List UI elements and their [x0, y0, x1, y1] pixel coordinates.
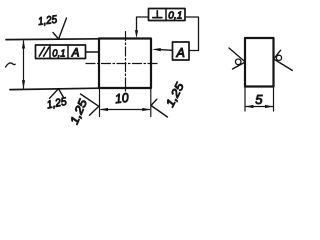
dimension l line: [23, 41, 25, 88]
dimension 5 line: [246, 106, 273, 108]
no-removal roughness symbol left face: [229, 48, 245, 69]
roughness mark right extension: [151, 99, 168, 117]
front view outline: [99, 39, 151, 89]
parallelism symbol //: [39, 47, 44, 56]
bottom edge extension line: [10, 88, 99, 89]
extension line left of dimension 10: [99, 88, 101, 117]
perpendicularity frame: [149, 9, 186, 21]
leader arrow down: [135, 30, 138, 38]
svg-text:0,1: 0,1: [52, 47, 65, 59]
connector frame to datum box: [185, 17, 199, 51]
dimension l arrow down: [22, 80, 25, 89]
vertical centerline: [125, 32, 127, 95]
dimension 10 left arrow: [100, 108, 109, 111]
datum box A: [173, 42, 190, 60]
roughness mark left extension: [81, 94, 99, 115]
svg-text:1,25: 1,25: [37, 14, 58, 28]
svg-text:10: 10: [114, 90, 130, 106]
leader from perpendicularity frame: [137, 17, 149, 31]
dimension 10 right arrow: [142, 108, 151, 111]
perpendicularity symbol: [156, 11, 158, 18]
extension line right of dimension 5: [273, 87, 275, 112]
parallelism frame: [36, 45, 86, 59]
dimension 5 left arrow: [245, 105, 254, 108]
horizontal centerline: [86, 63, 157, 65]
extension line right of dimension 10: [150, 88, 152, 117]
roughness mark bottom face: [50, 89, 64, 99]
top edge extension line: [6, 38, 99, 41]
frame connector to left face: [86, 51, 100, 53]
svg-text:0,1: 0,1: [168, 10, 182, 22]
svg-text:A: A: [176, 46, 185, 60]
side view outline: [245, 38, 274, 87]
roughness mark top: [53, 18, 67, 39]
dimension l arrow up: [22, 40, 25, 49]
svg-text:5: 5: [255, 92, 263, 107]
datum arrow: [152, 48, 161, 51]
no-removal roughness symbol right face: [274, 50, 293, 70]
dimension 10 line: [101, 109, 150, 111]
svg-text:A: A: [71, 48, 80, 60]
dimension 5 right arrow: [265, 105, 274, 108]
label l squiggle: [6, 63, 16, 67]
datum leader: [161, 49, 173, 52]
extension line left of dimension 5: [244, 87, 246, 112]
